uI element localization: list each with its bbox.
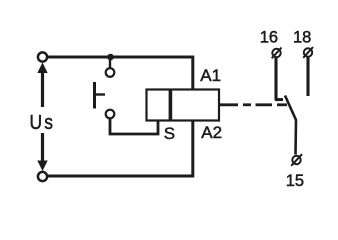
svg-text:A1: A1 [200, 66, 221, 85]
svg-text:16: 16 [260, 29, 278, 47]
svg-text:S: S [164, 124, 175, 143]
svg-text:A2: A2 [201, 123, 222, 142]
svg-text:18: 18 [293, 29, 311, 47]
svg-text:15: 15 [286, 172, 304, 190]
svg-text:Us: Us [30, 112, 53, 135]
